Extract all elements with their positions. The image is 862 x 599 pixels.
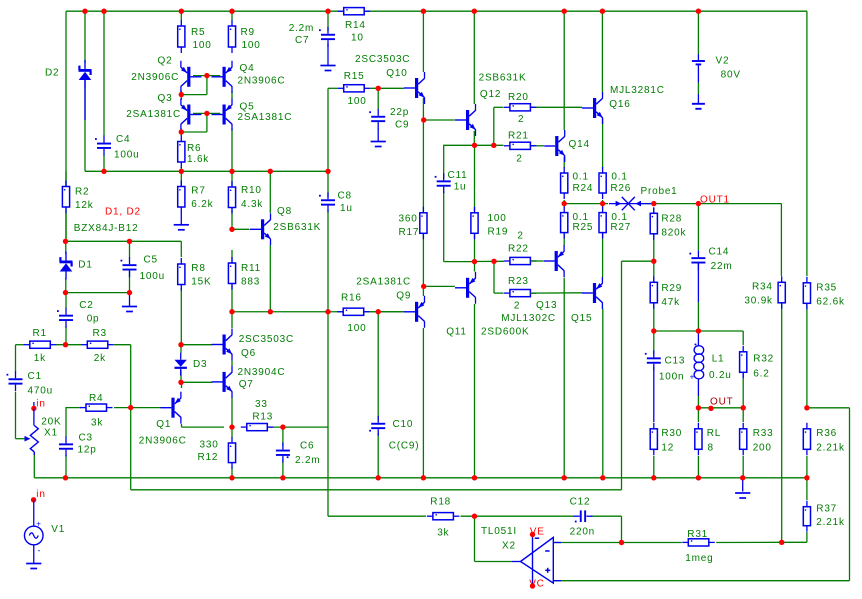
svg-text:2: 2 — [514, 300, 520, 311]
svg-text:TL051I: TL051I — [481, 526, 517, 537]
svg-text:10: 10 — [351, 32, 364, 43]
wire R18 row — [328, 312, 426, 516]
svg-text:R16: R16 — [341, 293, 362, 304]
ground V1 — [26, 564, 41, 569]
svg-text:C13: C13 — [665, 355, 686, 366]
transistor Q6 — [212, 329, 233, 361]
transistor Q4 — [212, 61, 233, 93]
wire Q12 base link — [424, 119, 455, 121]
svg-text:2.2m: 2.2m — [289, 23, 314, 34]
wire C14 branch — [697, 204, 699, 250]
junction dot 39 at 328.0,311.75 — [325, 309, 330, 314]
wire R37 branch — [782, 478, 807, 543]
junction dot 29 at 65.5,241.3 — [63, 239, 68, 244]
wire R29 to C13 node — [653, 303, 655, 355]
resistor R5 — [178, 20, 185, 53]
svg-text:R27: R27 — [610, 222, 631, 233]
resistor R11 — [228, 257, 235, 290]
junction dot 37 at 232.0,311.75 — [229, 309, 234, 314]
capacitor C2 — [57, 308, 73, 328]
svg-text:2SD600K: 2SD600K — [481, 327, 529, 338]
resistor R2 — [62, 181, 69, 214]
resistor R31 — [682, 539, 715, 546]
svg-text:12p: 12p — [78, 445, 97, 456]
node dot VE — [530, 532, 535, 537]
wire Q13 collector down to rail — [563, 278, 565, 478]
svg-text:R2: R2 — [75, 186, 89, 197]
capacitor C11 — [435, 173, 451, 193]
wire L1 bottom to OUT — [697, 379, 699, 397]
junction dot 24 at 378.2,88.3 — [376, 86, 381, 91]
wire X1 bottom to rail — [33, 452, 35, 478]
svg-text:R28: R28 — [661, 214, 682, 225]
resistor R29 — [650, 276, 657, 309]
wire R2 bottom to D1 net — [65, 213, 67, 242]
wire R23 corner — [494, 261, 504, 293]
wire Q12 emitter to R20 net — [473, 131, 475, 145]
svg-text:47k: 47k — [661, 297, 680, 308]
resistor R36 — [803, 423, 810, 456]
junction dot 21 at 232.0,171.3 — [229, 169, 234, 174]
junction dot 7 at 474.3,11.2 — [472, 9, 477, 14]
wire Q1 base — [131, 407, 161, 409]
resistor R22 — [504, 257, 537, 264]
svg-text:Q14: Q14 — [569, 139, 590, 150]
svg-text:4.3k: 4.3k — [241, 199, 263, 210]
diode D3 — [175, 353, 187, 376]
wire D1 top lead — [65, 241, 67, 254]
svg-text:D2: D2 — [45, 67, 59, 78]
resistor R6 — [178, 136, 185, 169]
wire OUT row — [698, 407, 743, 409]
svg-text:C(C9): C(C9) — [389, 440, 420, 451]
junction dot 46 at 130.7,407.6 — [128, 405, 133, 410]
transistor Q16 — [582, 92, 603, 124]
junction dot 59 at 564.2,477.8 — [562, 475, 567, 480]
wire Q10 collector — [422, 11, 424, 72]
potentiometer X1 — [30, 426, 38, 452]
wire R1-R3 row — [56, 344, 82, 346]
resistor R35 — [803, 277, 810, 310]
svg-text:C5: C5 — [144, 255, 158, 266]
resistor R15 — [338, 85, 371, 92]
resistor R19 — [471, 207, 478, 240]
junction dot 35 at 65.5,292.6 — [63, 290, 68, 295]
svg-text:R18: R18 — [430, 497, 451, 508]
svg-text:C3: C3 — [79, 433, 93, 444]
wire R23 right to Q15 base — [531, 292, 583, 294]
wire Q6 collector up — [231, 312, 233, 328]
svg-text:Q13: Q13 — [536, 300, 557, 311]
junction dot 57 at 423.4,477.8 — [421, 475, 426, 480]
resistor R37 — [803, 501, 810, 532]
wire R8 bottom to D3 node — [180, 288, 182, 345]
wire R4 left corner — [66, 408, 82, 437]
junction dot 3 at 181.3,11.2 — [179, 9, 184, 14]
wire R17 bottom lead — [422, 233, 424, 286]
svg-text:12k: 12k — [75, 200, 94, 211]
wire RL bottom — [697, 456, 699, 478]
svg-text:R35: R35 — [816, 283, 837, 294]
svg-text:D3: D3 — [193, 359, 207, 370]
junction dot 41 at 653.8,331 — [651, 328, 656, 333]
wire R1 left — [16, 345, 25, 372]
svg-text:D1: D1 — [78, 259, 92, 270]
resistor R28 — [650, 207, 657, 240]
junction dot 14 at 181.3,132 — [179, 129, 184, 134]
svg-text:R9: R9 — [241, 27, 255, 38]
resistor R3 — [81, 341, 114, 348]
svg-text:15K: 15K — [191, 277, 211, 288]
resistor R13 — [241, 424, 273, 431]
svg-text:Probe1: Probe1 — [641, 186, 678, 197]
junction dot 52 at 282.9,427.1 — [280, 424, 285, 429]
wire probe row left — [564, 203, 608, 205]
junction dot 66 at 621.5,542.5 — [619, 540, 624, 545]
svg-text:1u: 1u — [454, 182, 467, 193]
svg-text:R21: R21 — [508, 130, 529, 141]
wire L1 row — [654, 331, 743, 345]
wire R27 to Q15 — [602, 234, 604, 278]
svg-text:2k: 2k — [94, 353, 106, 364]
wire C9 to ground — [377, 128, 379, 142]
wire R2 branch — [65, 171, 67, 186]
junction dot 5 at 328.0,11.2 — [325, 9, 330, 14]
svg-text:D1, D2: D1, D2 — [105, 207, 141, 218]
svg-text:100n: 100n — [659, 371, 684, 382]
wire C2 branch — [65, 293, 67, 345]
svg-text:R19: R19 — [488, 227, 509, 238]
transistor Q2 — [181, 61, 202, 93]
resistor R26 — [599, 167, 606, 199]
svg-text:100: 100 — [348, 96, 367, 107]
wire Q2 emitter to Q3 node — [180, 91, 182, 101]
junction dot 48 at 711,408.3 — [708, 406, 713, 411]
junction dot 56 at 378.2,477.8 — [376, 475, 381, 480]
svg-text:62.6k: 62.6k — [816, 296, 845, 307]
svg-text:Q1: Q1 — [156, 419, 171, 430]
svg-text:12: 12 — [661, 443, 674, 454]
resistor R14 — [338, 8, 371, 15]
junction dot 63 at 742.7,477.8 — [740, 475, 745, 480]
resistor R8 — [178, 258, 185, 291]
svg-text:R30: R30 — [661, 428, 682, 439]
svg-text:R15: R15 — [344, 71, 365, 82]
svg-text:3k: 3k — [437, 527, 449, 538]
wire R16 row — [232, 311, 343, 313]
resistor R25 — [561, 207, 568, 239]
wire C7 to ground — [327, 44, 329, 66]
wire R34 lower to R31 row — [781, 303, 783, 542]
junction dot 40 at 378.2,311.75 — [376, 309, 381, 314]
transistor Q15 — [582, 277, 603, 309]
capacitor C10 — [369, 416, 385, 436]
wire rail ground stub — [742, 478, 744, 492]
svg-text:2: 2 — [516, 154, 522, 165]
svg-text:R4: R4 — [89, 393, 103, 404]
wire dot207 down-left to 181 — [181, 76, 207, 95]
zener diode D1 — [60, 252, 73, 280]
wire C4 branch top — [103, 11, 105, 136]
junction dot 16 at 474.5,145.3 — [472, 143, 477, 148]
junction dot 13 at 206.9,113.4 — [204, 111, 209, 116]
svg-text:R13: R13 — [252, 411, 273, 422]
svg-text:2.21k: 2.21k — [816, 517, 845, 528]
resistor R33 — [740, 423, 747, 456]
capacitor C12 — [580, 510, 582, 522]
capacitor C3 — [59, 436, 73, 456]
resistor R30 — [650, 423, 657, 456]
resistor R17 — [420, 207, 427, 240]
wire Q9 base link — [370, 311, 404, 313]
junction dot 23 at 328.0,171.3 — [325, 169, 330, 174]
wire probe to R28 dot — [641, 203, 654, 205]
voltage source V2 — [697, 54, 699, 61]
wire Q11 collector stub — [474, 262, 476, 272]
wire R18 dot to C12 — [461, 515, 575, 517]
transistor Q10 — [404, 72, 425, 104]
wire R15 right to Q10 — [370, 87, 404, 89]
ground R7 — [174, 225, 189, 230]
svg-text:C14: C14 — [709, 247, 730, 258]
svg-text:Q12: Q12 — [480, 89, 501, 100]
junction dot 36 at 129.5,292.6 — [127, 290, 132, 295]
svg-text:R20: R20 — [508, 92, 529, 103]
svg-text:2.21k: 2.21k — [816, 443, 845, 454]
resistor R9 — [228, 20, 235, 53]
wire R16 right to Q9 — [364, 311, 404, 313]
wire R25 to Q13 emitter — [563, 234, 565, 246]
probe Probe1 symbol — [609, 203, 654, 205]
wire D3 bottom lead — [180, 370, 182, 382]
svg-text:1.6k: 1.6k — [187, 154, 209, 165]
transistor Q8 — [250, 213, 271, 245]
svg-text:R25: R25 — [573, 222, 594, 233]
wire R21 row — [444, 144, 504, 146]
junction dot 2 at 104,11.2 — [101, 9, 106, 14]
node dot VC — [530, 583, 535, 588]
wire D2 branch — [84, 11, 86, 63]
capacitor C6 — [276, 443, 290, 463]
wire D3 to Q7 base — [181, 381, 212, 383]
wire Q9 emitter down to rail — [422, 328, 424, 478]
wire input col x130 — [130, 345, 132, 490]
svg-text:+: + — [36, 519, 41, 528]
wire R7 branch — [180, 171, 182, 186]
junction dot 19 at 104,171.3 — [101, 169, 106, 174]
ground rail — [735, 493, 750, 498]
wire R3 right — [114, 344, 131, 346]
wire Q16 emitter to R26 — [602, 118, 604, 168]
wire R19 branch — [474, 145, 476, 262]
svg-text:+: + — [690, 373, 695, 382]
svg-text:Q8: Q8 — [277, 206, 292, 217]
wire base link Q2-Q4 — [193, 75, 220, 77]
wire Q9 collector lead — [422, 286, 424, 296]
wire R33 bottom — [742, 456, 744, 478]
svg-text:330: 330 — [200, 439, 219, 450]
wire RL top — [697, 408, 699, 422]
wire C1 bottom to wiper — [16, 392, 25, 439]
junction dot 20 at 181.3,171.3 — [179, 169, 184, 174]
junction dot 55 at 282.9,477.8 — [280, 475, 285, 480]
svg-text:BZX84J-B12: BZX84J-B12 — [74, 223, 139, 234]
junction dot 67 at 781.7,542.3 — [779, 540, 784, 545]
svg-text:0.1: 0.1 — [611, 172, 627, 183]
wire Q6 base row — [181, 344, 212, 346]
svg-text:Q3: Q3 — [158, 93, 173, 104]
wire C6 leads — [282, 427, 284, 478]
wire R20 corner — [494, 107, 504, 145]
capacitor C1 — [7, 371, 23, 391]
wire R15 left corner — [328, 88, 338, 171]
op-amp X2 — [521, 537, 554, 583]
transistor Q3 — [181, 99, 202, 131]
junction dot 61 at 653.8,477.8 — [651, 475, 656, 480]
svg-text:C8: C8 — [338, 190, 352, 201]
svg-text:V2: V2 — [716, 56, 730, 67]
wire C14 to L1 node — [697, 264, 699, 303]
junction dot 4 at 232.0,11.2 — [229, 9, 234, 14]
resistor R21 — [504, 142, 537, 149]
wire Q10 emitter to dot — [422, 98, 424, 120]
svg-text:0.1: 0.1 — [573, 172, 589, 183]
svg-text:100: 100 — [193, 40, 212, 51]
svg-text:R36: R36 — [816, 428, 837, 439]
junction dot 62 at 698.4,477.8 — [696, 475, 701, 480]
resistor R10 — [228, 181, 235, 214]
svg-text:80V: 80V — [721, 70, 741, 81]
junction dot 9 at 602.4,11.2 — [600, 9, 605, 14]
wire R9 top lead — [231, 11, 233, 20]
wire opamp plus input row — [553, 580, 849, 582]
svg-text:R5: R5 — [191, 27, 205, 38]
svg-text:Q10: Q10 — [386, 68, 407, 79]
wire C10 branch — [377, 312, 379, 478]
wire Q14 collector to rail — [563, 11, 565, 130]
wire C13 to R30 — [653, 367, 655, 422]
svg-text:R22: R22 — [508, 244, 529, 255]
svg-text:C6: C6 — [300, 441, 314, 452]
wire dot654 to x622 corner — [622, 261, 654, 490]
junction dot 44 at 181,344.7 — [178, 342, 183, 347]
wire R36 bottom — [806, 456, 808, 478]
svg-text:Q11: Q11 — [446, 327, 467, 338]
junction dot 30 at 129.5,241.3 — [127, 239, 132, 244]
svg-text:30.9k: 30.9k — [744, 295, 773, 306]
wire V2 branch — [697, 11, 699, 54]
svg-text:200: 200 — [753, 443, 772, 454]
node dot in1 — [31, 406, 36, 411]
svg-text:883: 883 — [241, 277, 260, 288]
wire Q15 lower lead to rail — [602, 309, 604, 478]
svg-text:Q2: Q2 — [158, 55, 173, 66]
wire Q8 collector — [269, 171, 271, 213]
wire Q5 emitter down to y171 — [231, 129, 233, 172]
svg-text:100u: 100u — [114, 149, 139, 160]
wire Q3 emitter to R6 — [180, 129, 182, 137]
wire R22 right to Q13 base — [531, 260, 544, 262]
svg-text:6.2: 6.2 — [753, 369, 769, 380]
svg-text:Q9: Q9 — [396, 290, 411, 301]
junction dot 38 at 270.3,311.75 — [268, 309, 273, 314]
svg-text:2SC3503C: 2SC3503C — [355, 54, 410, 65]
resistor R20 — [504, 104, 537, 111]
svg-text:R32: R32 — [753, 354, 774, 365]
wire C4 branch bottom — [103, 155, 105, 171]
svg-text:20K: 20K — [41, 417, 61, 428]
wire OUT1 row — [654, 204, 782, 276]
svg-text:X1: X1 — [44, 428, 58, 439]
svg-text:1u: 1u — [340, 203, 353, 214]
wire C11 branch — [444, 145, 475, 262]
svg-text:OUT: OUT — [710, 397, 734, 408]
junction dot 34 at 423.7,286.4 — [421, 284, 426, 289]
svg-text:Q5: Q5 — [240, 101, 255, 112]
svg-text:470u: 470u — [28, 385, 53, 396]
svg-text:R37: R37 — [816, 503, 837, 514]
wire top +80V rail — [66, 10, 807, 12]
svg-text:33: 33 — [255, 399, 268, 410]
resistor R23 — [504, 290, 537, 297]
svg-text:MJL3281C: MJL3281C — [610, 85, 665, 96]
svg-text:1k: 1k — [34, 353, 46, 364]
wire C5 ground stub — [129, 293, 131, 306]
svg-text:Q15: Q15 — [571, 313, 592, 324]
transistor Q13 — [544, 245, 565, 277]
transistor Q9 — [404, 296, 425, 328]
svg-text:2SA1381C: 2SA1381C — [356, 277, 411, 288]
svg-text:R6: R6 — [187, 143, 201, 154]
svg-text:R3: R3 — [93, 328, 107, 339]
transistor Q11 — [455, 272, 476, 304]
svg-text:2SA1381C: 2SA1381C — [126, 109, 181, 120]
wire left column from rail to D1 net — [65, 11, 67, 241]
ground C7 — [320, 66, 335, 71]
wire R32 bottom — [742, 374, 744, 408]
svg-text:in: in — [36, 489, 45, 500]
svg-text:2SB631K: 2SB631K — [479, 73, 527, 84]
svg-text:R29: R29 — [661, 283, 682, 294]
junction dot 8 at 564.2,11.2 — [562, 9, 567, 14]
svg-text:in: in — [36, 399, 45, 410]
svg-text:R14: R14 — [345, 20, 366, 31]
svg-text:0p: 0p — [87, 314, 100, 325]
svg-text:R33: R33 — [753, 428, 774, 439]
svg-text:R17: R17 — [399, 227, 420, 238]
junction dot 27 at 653.8,203.6 — [651, 201, 656, 206]
junction dot 45 at 181,382.3 — [178, 380, 183, 385]
junction dot 51 at 232.0,427.1 — [229, 424, 234, 429]
svg-text:2N3906C: 2N3906C — [238, 76, 286, 87]
wire R22 left lead — [475, 260, 505, 262]
junction dot 22 at 270.3,171.3 — [268, 169, 273, 174]
svg-text:R26: R26 — [610, 183, 631, 194]
svg-text:1meg: 1meg — [685, 553, 713, 564]
wire right border to R35 — [806, 11, 808, 276]
transistor Q5 — [212, 99, 233, 131]
junction dot 26 at 602.6,203.6 — [600, 201, 605, 206]
node dot in2 — [31, 497, 36, 502]
svg-text:22m: 22m — [711, 261, 733, 272]
svg-text:Q4: Q4 — [240, 63, 255, 74]
svg-text:2N3906C: 2N3906C — [139, 435, 187, 446]
wire Q7 emitter to R13 node — [231, 398, 233, 428]
wire R7 to ground — [180, 213, 182, 225]
capacitor C4 — [95, 136, 111, 156]
junction dot 64 at 806.9,477.8 — [804, 475, 809, 480]
junction dot 15 at 423.7,120 — [421, 117, 426, 122]
